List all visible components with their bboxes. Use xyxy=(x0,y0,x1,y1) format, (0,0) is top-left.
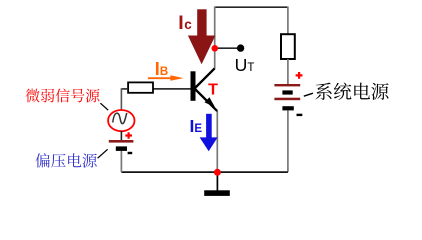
wire: emitter vertical xyxy=(216,111,218,172)
svg-text:UT: UT xyxy=(235,55,255,75)
transistor T collector lead xyxy=(195,68,215,88)
wire: top rail collector-to-resistor xyxy=(215,6,288,8)
wire: signal source to resistor R1 xyxy=(122,88,128,90)
wire: top rail down to resistor R2 xyxy=(287,7,289,35)
battery B1 minus label xyxy=(297,114,303,116)
wire: system battery to bottom rail xyxy=(287,110,289,172)
resistor R2 (collector load) xyxy=(281,34,295,59)
arrow Ib (base current) xyxy=(148,75,184,81)
transistor T emitter lead xyxy=(195,89,217,111)
battery B1 plate short xyxy=(282,90,292,94)
wire: ground stem xyxy=(216,172,218,190)
node: emitter-ground junction (red) xyxy=(214,169,221,176)
battery B2 plate short xyxy=(116,146,127,151)
AC source G1 (weak signal source) xyxy=(108,110,134,131)
label: system supply (Chinese) xyxy=(315,83,388,100)
arrow Ic (collector current) xyxy=(188,9,216,64)
battery B2 minus label xyxy=(128,152,133,154)
battery B1 plate long 2 xyxy=(274,98,300,101)
AC source sine wave xyxy=(113,113,127,124)
svg-text:T: T xyxy=(208,82,218,99)
label: weak signal source (Chinese) xyxy=(26,88,100,102)
resistor R1 (base) xyxy=(128,82,153,92)
wire: resistor R2 to system battery xyxy=(287,59,289,84)
wire: base wire resistor R1 to transistor xyxy=(153,88,191,90)
battery B2 plus label xyxy=(125,132,132,139)
wire: node to UT terminal xyxy=(215,47,241,49)
wire: bottom rail xyxy=(121,171,288,173)
wire: bias battery to bottom rail xyxy=(120,151,122,172)
transistor T base bar xyxy=(191,71,196,101)
battery B1 system supply plate + long xyxy=(274,84,300,86)
node: UT terminal (black) xyxy=(237,44,244,51)
battery B1 plus label xyxy=(296,72,303,79)
label: bias supply (Chinese) xyxy=(36,153,97,167)
arrow Ie (emitter current) xyxy=(200,114,218,151)
wire: AC source to bias battery xyxy=(120,131,122,140)
leader line to weak signal source xyxy=(100,103,108,110)
leader dash to system supply xyxy=(304,93,313,96)
battery B2 bias plate long xyxy=(109,140,134,143)
wire: collector vertical xyxy=(214,7,216,69)
ground xyxy=(204,190,230,196)
svg-text:IB: IB xyxy=(155,59,168,79)
svg-text:IE: IE xyxy=(190,116,203,136)
battery B1 plate short 2 xyxy=(282,106,293,110)
svg-text:Ic: Ic xyxy=(178,12,192,34)
node: collector junction (red) xyxy=(212,45,219,52)
leader line to bias supply xyxy=(98,149,108,158)
